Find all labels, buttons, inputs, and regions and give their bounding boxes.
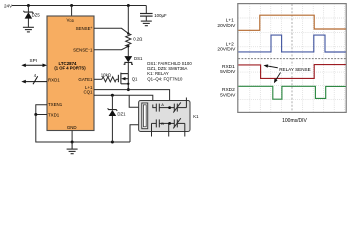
svg-text:SENSE−1: SENSE−1 [73,48,93,53]
svg-text:K1: K1 [193,114,199,119]
scope centre horizontal separator [238,58,346,60]
wire GND pin drop [71,131,73,143]
node SPI bus arrow [21,64,47,68]
ground (below GND pin) [67,142,78,154]
scope channel labels [217,18,307,125]
svg-text:10kΩ: 10kΩ [101,73,112,78]
wire DZ5 branch [27,6,29,13]
zener DZ5 [23,11,33,27]
svg-text:20V/DIV: 20V/DIV [217,23,236,29]
wire RXD1 arrow with bus slash [21,76,47,84]
svg-text:L+2: L+2 [226,41,234,47]
wire to 100uF cap [145,6,147,14]
wire 24V top rail [12,5,146,7]
svg-text:DZ1: DZ1 [117,112,126,117]
svg-text:20V/DIV: 20V/DIV [217,46,236,52]
resistor R1 0.2ohm (vertical) [126,6,131,57]
svg-text:GND: GND [67,125,77,130]
transistor Q1 N-MOSFET [118,73,128,90]
node gnd rail junctions [71,141,74,144]
zener DZ1 [108,95,118,142]
svg-text:RXD1: RXD1 [48,77,60,82]
trace L+1 (orange) [238,15,345,30]
svg-text:5V/DIV: 5V/DIV [220,93,236,99]
parts list note [147,61,192,82]
svg-text:B: B [161,121,164,126]
node sense resistor junctions [127,32,129,34]
wire coil feed from gnd rail [130,125,142,142]
annotation RELAY SENSE [264,64,313,83]
svg-text:(1 OF 4 PORTS): (1 OF 4 PORTS) [54,65,86,70]
svg-text:RELAY SENSE: RELAY SENSE [279,67,311,72]
svg-text:4: 4 [34,73,37,78]
wire gnd rail bottom [36,115,130,143]
ground (below 100uF) [141,21,152,26]
svg-text:Q1: Q1 [132,76,138,81]
svg-text:TXEN1: TXEN1 [48,102,63,107]
svg-text:DZ5: DZ5 [32,13,41,18]
trace RXD2 (green) [238,86,345,99]
svg-text:100ms/DIV: 100ms/DIV [282,118,307,124]
wire SENSE+ [94,28,128,33]
svg-text:VDD: VDD [67,18,75,24]
scope frame [238,4,346,113]
diode DS1 schottky [124,56,133,73]
resistor R2 10k (horizontal) [94,77,118,82]
svg-text:Q1–Q4: FQT7N10: Q1–Q4: FQT7N10 [147,76,183,81]
relay K1 body [139,101,190,132]
wire CQ1 [94,95,153,104]
wire SENSE-1 [94,46,128,49]
scope centre vertical line [291,4,293,112]
wire TXEN1 [36,105,47,115]
svg-text:RXD2: RXD2 [222,87,235,93]
wire TXD1 [36,114,47,116]
trace RXD1 (dark red) [238,65,345,79]
wire VDD drop [71,6,73,17]
wire coil feed from CQ1 [129,95,142,107]
scope grid [238,4,346,112]
svg-text:RXD1: RXD1 [222,64,235,70]
svg-text:100µF: 100µF [154,13,167,18]
svg-text:0.2Ω: 0.2Ω [133,36,143,41]
node DZ1 top junction [111,94,114,97]
trace L+2 (blue) [238,35,345,52]
relay K1 coil [142,103,148,129]
relay contact row A [153,98,187,113]
svg-text:DS1: DS1 [134,56,143,61]
relay contact row B [152,118,185,136]
ground (below DZ5) [23,27,34,32]
svg-text:A: A [161,102,164,107]
node 24V rail junction dots [27,4,130,7]
IC U1 LTC2874 body and pin labels [47,16,94,131]
svg-text:SPI: SPI [30,58,37,63]
svg-text:TXD1: TXD1 [48,113,60,118]
svg-text:L+1: L+1 [226,18,234,24]
svg-text:GATE1: GATE1 [78,77,93,82]
svg-text:24V: 24V [4,3,13,8]
svg-text:K1: RELAY: K1: RELAY [147,71,169,76]
svg-text:CQ1: CQ1 [83,89,93,94]
wire L+1 to relay [94,90,170,108]
svg-text:5V/DIV: 5V/DIV [220,69,236,75]
node TX bus junction [34,113,37,116]
svg-text:SENSE+: SENSE+ [76,26,93,31]
capacitor C1 100uF [140,14,153,17]
node L+1 source junction [127,88,130,91]
